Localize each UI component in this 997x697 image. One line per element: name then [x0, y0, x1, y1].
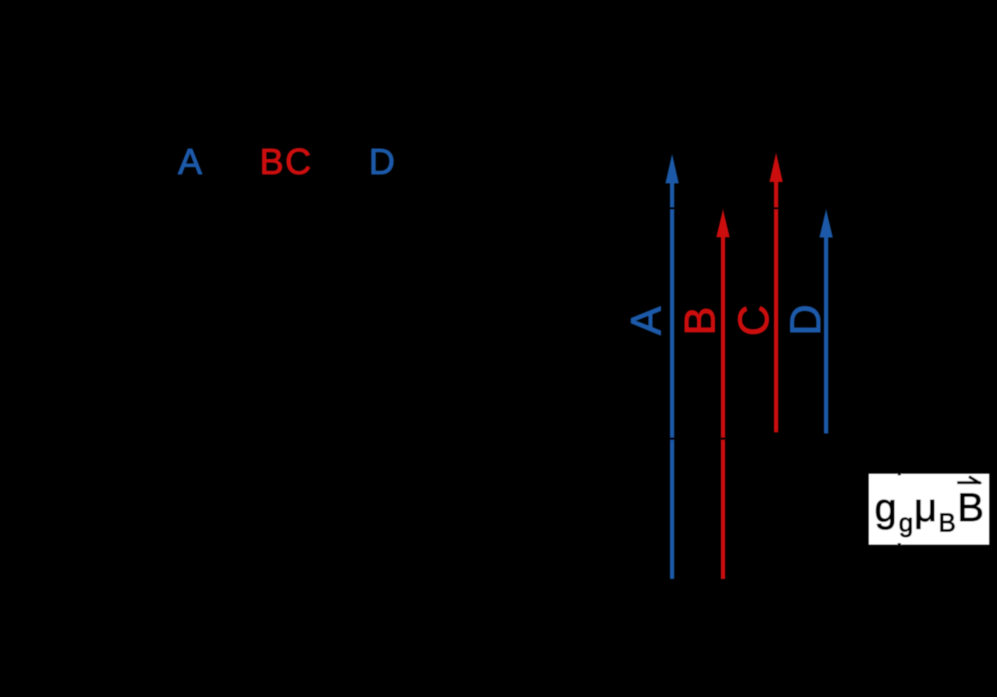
- svg-text:D: D: [782, 304, 830, 335]
- vector arrow over B: [957, 481, 981, 484]
- svg-text:BC: BC: [260, 141, 312, 182]
- svg-text:B: B: [676, 307, 724, 336]
- svg-text:g: g: [875, 486, 897, 530]
- black axis tick notch (bottom edge of box): [898, 543, 901, 546]
- arrow C (red transition): [769, 153, 782, 433]
- svg-text:C: C: [730, 305, 778, 336]
- svg-text:B: B: [939, 508, 956, 538]
- svg-text:A: A: [623, 306, 671, 335]
- white label box: [869, 474, 990, 545]
- svg-text:g: g: [899, 508, 913, 538]
- energy level line (black, crosses A and C shafts): [600, 207, 860, 210]
- arrow D (blue transition): [819, 209, 832, 433]
- svg-text:μ: μ: [914, 486, 937, 530]
- svg-text:A: A: [178, 141, 202, 182]
- formula g_g mu_B B-vector: [875, 475, 984, 537]
- arrow A (blue transition): [665, 154, 678, 579]
- arrow B (red transition): [716, 209, 729, 579]
- energy level line (black, crosses A and B shafts): [600, 437, 860, 440]
- svg-text:D: D: [369, 141, 395, 182]
- black axis tick notch (top edge of box): [898, 472, 901, 475]
- svg-text:B: B: [957, 486, 984, 530]
